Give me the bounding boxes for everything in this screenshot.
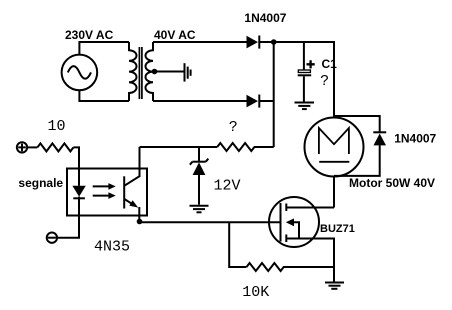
svg-text:12V: 12V	[214, 178, 241, 195]
svg-text:C1: C1	[322, 57, 338, 71]
svg-text:10: 10	[48, 118, 66, 135]
svg-text:BUZ71: BUZ71	[320, 223, 355, 235]
svg-text:10K: 10K	[242, 284, 269, 301]
svg-text:Motor 50W 40V: Motor 50W 40V	[349, 176, 435, 190]
svg-text:?: ?	[229, 119, 238, 136]
svg-text:230V AC: 230V AC	[65, 28, 114, 42]
svg-text:?: ?	[320, 73, 329, 90]
svg-text:40V AC: 40V AC	[154, 28, 196, 42]
svg-text:1N4007: 1N4007	[394, 132, 436, 146]
svg-text:segnale: segnale	[18, 176, 63, 190]
svg-text:4N35: 4N35	[94, 239, 130, 256]
svg-text:1N4007: 1N4007	[244, 11, 286, 25]
